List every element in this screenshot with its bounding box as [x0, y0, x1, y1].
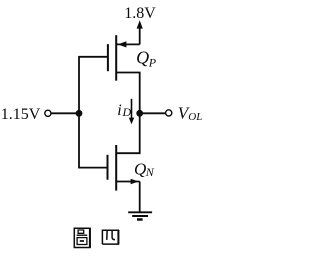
svg-text:1.8V: 1.8V — [124, 5, 156, 22]
wire QN source lead — [116, 181, 140, 183]
transistor QP gate bar — [107, 44, 109, 71]
label figure caption 四 — [102, 230, 118, 245]
transistor QN channel bar — [115, 145, 117, 191]
wire QN source to ground — [139, 182, 141, 212]
wire gate rail (input net) — [78, 57, 80, 168]
ground — [128, 212, 152, 219]
svg-text:P: P — [148, 55, 157, 69]
wire QP source lead — [116, 43, 140, 45]
svg-text:i: i — [117, 102, 121, 119]
arrowhead VDD up — [137, 20, 143, 28]
transistor QP channel bar — [115, 35, 117, 80]
svg-text:D: D — [122, 105, 132, 119]
svg-text:OL: OL — [188, 111, 202, 123]
arrowhead QN source (points right) — [131, 179, 139, 185]
terminal input circle — [45, 110, 51, 116]
arrowhead iD down — [129, 118, 134, 125]
label figure caption 圖 — [74, 228, 90, 248]
wire iD arrow shaft — [131, 99, 133, 119]
wire PMOS gate lead — [78, 56, 108, 58]
wire NMOS gate lead — [78, 167, 107, 169]
wire input lead — [52, 112, 80, 114]
terminal VOL circle — [166, 110, 172, 116]
svg-text:1.15V: 1.15V — [1, 106, 41, 123]
svg-text:Q: Q — [136, 48, 149, 68]
transistor QN gate bar — [107, 155, 109, 180]
wire output to VOL terminal — [140, 112, 166, 114]
svg-text:Q: Q — [134, 160, 146, 179]
arrowhead QP source (points left) — [118, 41, 127, 47]
svg-text:N: N — [145, 165, 155, 179]
wire QP drain lead — [116, 73, 140, 114]
wire NMOS drain lead — [116, 113, 140, 153]
node input junction dot — [76, 110, 83, 117]
node output junction dot — [136, 110, 143, 117]
wire VDD riser — [139, 28, 141, 45]
